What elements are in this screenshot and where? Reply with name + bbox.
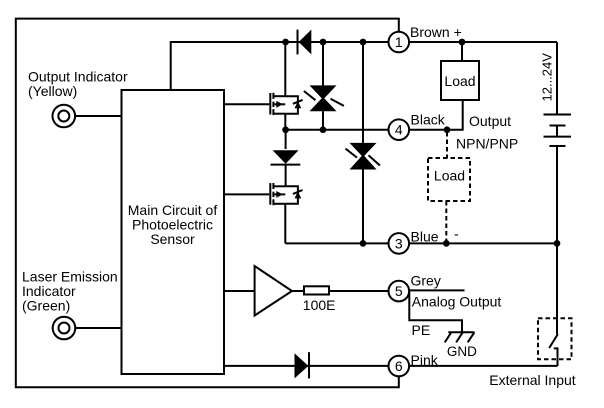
svg-text:Black: Black: [411, 112, 446, 128]
svg-text:5: 5: [395, 283, 403, 299]
svg-text:NPN/PNP: NPN/PNP: [456, 136, 518, 152]
svg-text:Analog Output: Analog Output: [412, 293, 502, 309]
svg-text:Brown +: Brown +: [410, 24, 462, 40]
svg-text:External Input: External Input: [489, 372, 575, 388]
svg-text:6: 6: [395, 358, 403, 374]
svg-text:12...24V: 12...24V: [540, 53, 555, 102]
svg-text:4: 4: [395, 122, 403, 138]
svg-text:GND: GND: [447, 344, 477, 359]
svg-text:Load: Load: [434, 168, 465, 184]
svg-text:(Green): (Green): [22, 297, 70, 313]
svg-text:PE: PE: [412, 322, 431, 338]
svg-text:100E: 100E: [303, 297, 336, 313]
svg-text:Grey: Grey: [411, 272, 441, 288]
svg-text:Pink: Pink: [411, 352, 439, 368]
svg-text:(Yellow): (Yellow): [28, 83, 77, 99]
svg-text:3: 3: [395, 235, 403, 251]
svg-text:Load: Load: [444, 73, 475, 89]
svg-text:Output: Output: [469, 113, 511, 129]
svg-text:1: 1: [395, 34, 403, 50]
svg-text:-: -: [454, 226, 459, 242]
svg-text:Blue: Blue: [411, 229, 439, 245]
svg-text:Sensor: Sensor: [150, 231, 195, 247]
